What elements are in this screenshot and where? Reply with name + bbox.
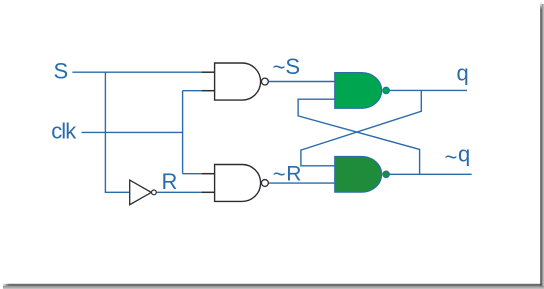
wire S branch vertical to inverter <box>104 72 106 192</box>
NAND U3 output bubble (filled) <box>383 87 390 94</box>
NAND U2 output bubble <box>261 180 268 187</box>
NAND1 input stub a <box>202 71 215 73</box>
NAND U1 output bubble <box>261 78 268 85</box>
svg-text:~: ~ <box>273 55 286 80</box>
svg-text:S: S <box>285 54 300 79</box>
NAND gate U1 (top white) <box>215 63 261 100</box>
wire S horizontal <box>72 71 202 73</box>
NAND2 input stub b <box>202 191 215 193</box>
wire inverter input <box>105 191 130 193</box>
svg-text:S: S <box>54 59 69 84</box>
svg-text:R: R <box>162 169 178 194</box>
NAND gate U3 (top green) <box>335 73 382 109</box>
NAND1 input stub b <box>202 90 215 92</box>
svg-text:q: q <box>458 142 470 167</box>
wire feedback q to NAND4 input a <box>301 90 421 165</box>
drop shadow bottom <box>2 284 542 286</box>
NAND U4 output bubble (filled) <box>383 171 390 178</box>
drop shadow right gray fade <box>542 4 544 286</box>
wire ~S (NAND1 out to NAND3) <box>268 81 335 83</box>
inverter U5 triangle <box>130 180 152 205</box>
wire R (inverter output to NAND2) <box>156 191 202 193</box>
NAND gate U4 (bottom green) <box>335 156 382 192</box>
svg-text:~: ~ <box>445 144 458 169</box>
drop shadow bottom gray fade <box>3 286 544 289</box>
NAND2 input stub a <box>202 173 215 175</box>
wire q output <box>389 89 467 91</box>
wire clk to NAND1 input b <box>183 90 203 92</box>
svg-text:clk: clk <box>51 119 77 144</box>
wire ~q output <box>389 173 471 175</box>
NAND gate U2 (bottom white) <box>215 165 261 202</box>
wire clk horizontal <box>82 131 183 133</box>
wire feedback ~q to NAND3 input b <box>298 99 420 174</box>
wire ~R (NAND2 out to NAND4) <box>268 182 335 184</box>
drop shadow right <box>540 2 542 286</box>
wire clk vertical <box>182 91 184 174</box>
inverter U5 bubble <box>152 190 157 195</box>
wire clk to NAND2 input a <box>183 173 203 175</box>
svg-text:q: q <box>457 61 469 86</box>
svg-text:R: R <box>286 162 301 185</box>
